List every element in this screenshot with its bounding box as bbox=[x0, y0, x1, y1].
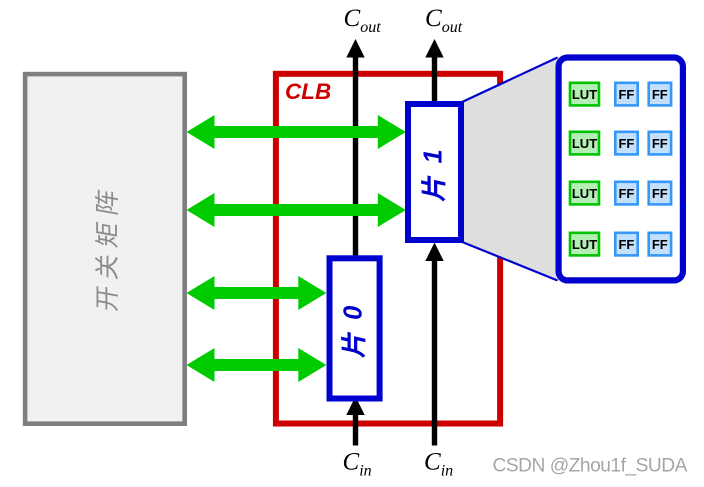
svg-text:FF: FF bbox=[652, 136, 668, 151]
slice0 box bbox=[330, 258, 380, 398]
svg-text:LUT: LUT bbox=[572, 87, 597, 102]
svg-text:LUT: LUT bbox=[572, 237, 597, 252]
svg-text:Cout: Cout bbox=[344, 5, 382, 36]
svg-text:CLB: CLB bbox=[285, 79, 331, 104]
wire: left vertical upper (slice0 to Cout) bbox=[353, 56, 358, 257]
arrowhead Cout right bbox=[425, 39, 443, 58]
FF row2 b bbox=[649, 132, 671, 155]
FF row2 a bbox=[615, 132, 637, 155]
svg-text:Cout: Cout bbox=[425, 5, 463, 36]
svg-text:Cin: Cin bbox=[424, 449, 453, 480]
svg-text:FF: FF bbox=[652, 186, 668, 201]
projection line bottom bbox=[461, 242, 558, 281]
svg-text:FF: FF bbox=[618, 87, 634, 102]
LUT row1 bbox=[570, 83, 599, 106]
detail box (slice internals) bbox=[559, 58, 683, 281]
wire: left vertical lower (Cin to slice0) bbox=[353, 413, 358, 446]
LUT row4 bbox=[570, 233, 599, 256]
svg-text:FF: FF bbox=[618, 237, 634, 252]
wire: right vertical lower (Cin to slice1) bbox=[432, 259, 437, 446]
CLB red border bbox=[276, 74, 500, 424]
arrowhead Cout left bbox=[346, 39, 364, 58]
slice0 label 片0 bbox=[340, 306, 368, 359]
svg-text:Cin: Cin bbox=[343, 449, 372, 480]
arrowhead into slice1 bottom bbox=[425, 243, 443, 262]
svg-text:CSDN @Zhou1f_SUDA: CSDN @Zhou1f_SUDA bbox=[493, 456, 688, 477]
green arrow 1 (switch matrix <-> slice1) bbox=[187, 115, 406, 149]
wire: right vertical upper (slice1 to Cout) bbox=[432, 56, 437, 104]
svg-text:FF: FF bbox=[652, 237, 668, 252]
LUT row3 bbox=[570, 182, 599, 205]
switch matrix box bbox=[25, 74, 185, 424]
FF row3 b bbox=[649, 182, 671, 205]
svg-text:LUT: LUT bbox=[572, 136, 597, 151]
FF row1 b bbox=[649, 83, 671, 106]
slice1 box bbox=[408, 104, 461, 240]
svg-text:1: 1 bbox=[420, 149, 448, 163]
svg-text:FF: FF bbox=[652, 87, 668, 102]
green arrow 4 (switch matrix <-> slice0) bbox=[187, 348, 327, 382]
LUT row2 bbox=[570, 132, 599, 155]
svg-text:FF: FF bbox=[618, 186, 634, 201]
FF row1 a bbox=[615, 83, 637, 106]
slice1 label 片1 bbox=[420, 149, 448, 202]
green arrow 3 (switch matrix <-> slice0) bbox=[187, 276, 327, 310]
arrowhead into slice0 bottom bbox=[346, 397, 364, 416]
projection line top bbox=[461, 58, 558, 103]
svg-text:0: 0 bbox=[340, 306, 368, 320]
FF row4 b bbox=[649, 233, 671, 256]
svg-text:LUT: LUT bbox=[572, 186, 597, 201]
FF row3 a bbox=[615, 182, 637, 205]
switch matrix label 开关矩阵 (rotated) bbox=[95, 189, 118, 312]
FF row4 a bbox=[615, 233, 637, 256]
green arrow 2 (switch matrix <-> slice1) bbox=[187, 193, 406, 227]
svg-text:FF: FF bbox=[618, 136, 634, 151]
projection shade polygon bbox=[461, 57, 559, 282]
